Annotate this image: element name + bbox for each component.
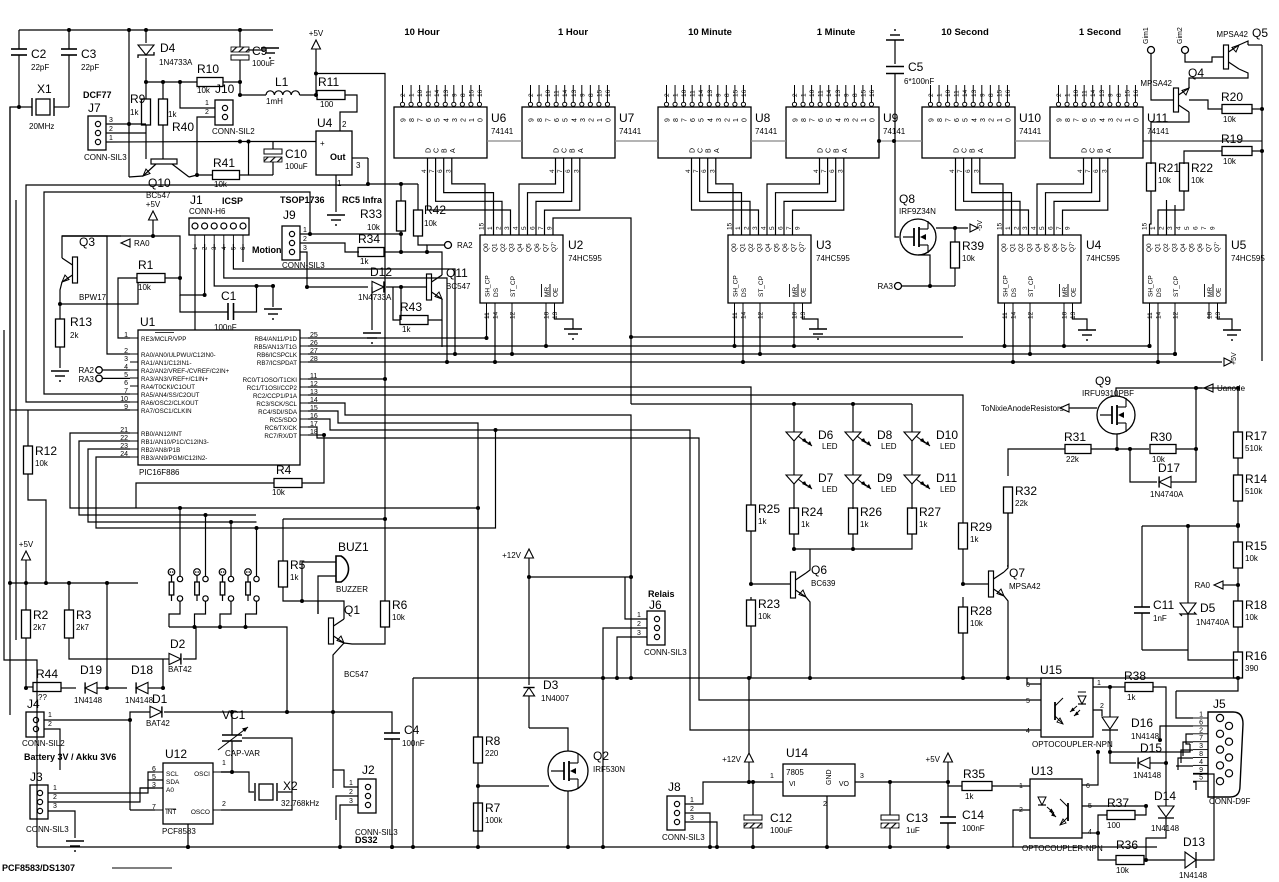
wire Q11 collector — [427, 252, 442, 275]
wires Q3 — [62, 236, 121, 258]
svg-text:14: 14 — [562, 89, 569, 97]
wires U12 left — [148, 772, 155, 780]
wires R31 — [1008, 449, 1065, 476]
svg-text:VC1: VC1 — [222, 708, 246, 722]
svg-text:Q1: Q1 — [1010, 243, 1017, 252]
svg-text:Q0: Q0 — [731, 243, 738, 252]
svg-text:3: 3 — [860, 773, 864, 780]
wire U2 Q7 chain — [553, 218, 631, 404]
svg-text:1: 1 — [690, 797, 694, 804]
svg-text:L1: L1 — [275, 75, 289, 89]
wire L1 to R11 — [300, 94, 316, 96]
svg-text:Q7: Q7 — [1061, 243, 1068, 252]
svg-text:7: 7 — [546, 118, 553, 122]
svg-text:9: 9 — [793, 118, 800, 122]
svg-text:13: 13 — [800, 311, 807, 319]
transistor Q7 — [989, 571, 994, 597]
svg-text:D5: D5 — [1200, 601, 1216, 615]
svg-text:SCL: SCL — [166, 771, 179, 778]
svg-text:8: 8 — [1199, 751, 1203, 758]
diode D1 — [150, 706, 162, 717]
svg-text:3: 3 — [124, 356, 128, 363]
svg-text:CONN-SIL2: CONN-SIL2 — [22, 739, 65, 748]
svg-text:5: 5 — [827, 118, 834, 122]
svg-text:R33: R33 — [360, 207, 382, 221]
svg-text:2: 2 — [1056, 93, 1063, 97]
svg-text:3: 3 — [356, 161, 361, 170]
svg-text:U3: U3 — [816, 238, 832, 252]
svg-text:RB4/AN11/P1D: RB4/AN11/P1D — [254, 336, 297, 343]
svg-text:J6: J6 — [649, 598, 662, 612]
diode D17 — [1159, 476, 1171, 487]
svg-text:U8: U8 — [755, 111, 771, 125]
svg-text:3: 3 — [580, 118, 587, 122]
svg-text:Q6: Q6 — [811, 563, 827, 577]
svg-text:D19: D19 — [80, 663, 102, 677]
svg-text:R44: R44 — [36, 667, 58, 681]
svg-text:B: B — [706, 148, 713, 153]
svg-text:R24: R24 — [801, 505, 823, 519]
svg-text:9: 9 — [1065, 226, 1072, 230]
svg-text:2: 2 — [303, 236, 307, 243]
svg-text:U9: U9 — [883, 111, 899, 125]
svg-text:D18: D18 — [131, 663, 153, 677]
svg-text:9: 9 — [1199, 767, 1203, 774]
svg-text:6*100nF: 6*100nF — [904, 77, 934, 86]
svg-text:4: 4 — [835, 118, 842, 122]
svg-text:A0: A0 — [166, 787, 174, 794]
svg-text:1: 1 — [733, 118, 740, 122]
svg-text:OPTOCOUPLER-NPN: OPTOCOUPLER-NPN — [1032, 740, 1113, 749]
wire TSOP out — [352, 157, 368, 159]
svg-text:D8: D8 — [877, 428, 893, 442]
svg-text:D: D — [818, 148, 825, 153]
svg-text:J4: J4 — [27, 697, 40, 711]
svg-text:1k: 1k — [402, 325, 411, 334]
svg-text:10: 10 — [1073, 89, 1080, 97]
LED rail top — [631, 403, 912, 405]
wire R10 right — [223, 81, 240, 83]
svg-text:1: 1 — [337, 179, 342, 188]
svg-text:10: 10 — [417, 89, 424, 97]
wires R30 — [1176, 448, 1196, 450]
svg-text:1k: 1k — [360, 257, 369, 266]
svg-text:C: C — [698, 148, 705, 153]
svg-text:X2: X2 — [283, 779, 298, 793]
svg-text:2: 2 — [928, 93, 935, 97]
svg-text:4: 4 — [1026, 728, 1030, 735]
svg-text:5: 5 — [435, 118, 442, 122]
svg-text:1N4007: 1N4007 — [541, 694, 570, 703]
svg-text:OE: OE — [801, 287, 808, 297]
svg-text:+5V: +5V — [19, 540, 34, 549]
svg-text:R7: R7 — [485, 801, 501, 815]
wire +5V to R1 and C1 — [153, 236, 205, 295]
switch S1 — [168, 569, 175, 576]
svg-text:R4: R4 — [276, 463, 292, 477]
svg-text:Q10: Q10 — [148, 176, 171, 190]
svg-text:7: 7 — [418, 118, 425, 122]
transistor Q6 — [791, 572, 796, 598]
svg-text:5: 5 — [1184, 226, 1191, 230]
connector J7 — [88, 116, 106, 150]
ground C1 — [272, 286, 274, 307]
svg-text:11: 11 — [1002, 312, 1009, 319]
svg-text:Q8: Q8 — [899, 192, 915, 206]
svg-text:8: 8 — [1065, 118, 1072, 122]
resistor R24 — [790, 508, 799, 534]
resistor R34 — [358, 248, 384, 257]
wire y337 — [631, 336, 963, 338]
power +12V — [745, 753, 754, 762]
resistor R26 — [849, 508, 858, 534]
svg-text:5: 5 — [1199, 775, 1203, 782]
svg-text:1N4148: 1N4148 — [1151, 824, 1180, 833]
resistor R32 — [1004, 487, 1013, 513]
svg-text:C4: C4 — [404, 723, 420, 737]
svg-text:D6: D6 — [818, 428, 834, 442]
svg-text:TSOP1736: TSOP1736 — [280, 195, 325, 205]
svg-text:2: 2 — [400, 93, 407, 97]
svg-text:1: 1 — [801, 93, 808, 97]
svg-text:32.768kHz: 32.768kHz — [281, 799, 319, 808]
crystal X2 — [221, 772, 254, 792]
svg-text:6: 6 — [554, 118, 561, 122]
svg-text:R43: R43 — [400, 300, 422, 314]
svg-text:2: 2 — [1100, 703, 1104, 710]
overline MCLR — [155, 332, 174, 334]
svg-text:100k: 100k — [485, 816, 503, 825]
svg-text:14: 14 — [434, 89, 441, 97]
svg-text:4: 4 — [443, 118, 450, 122]
svg-text:3: 3 — [1108, 118, 1115, 122]
bus wire lower mid — [413, 677, 1238, 679]
diode D18 — [136, 682, 148, 693]
svg-text:6: 6 — [1199, 719, 1203, 726]
resistor R4 — [274, 479, 302, 488]
svg-text:9: 9 — [1107, 93, 1114, 97]
svg-text:U4: U4 — [1086, 238, 1102, 252]
svg-text:11: 11 — [690, 90, 697, 97]
svg-text:LED: LED — [822, 442, 838, 451]
svg-text:+5V: +5V — [146, 200, 161, 209]
transistor Q1 — [329, 618, 334, 644]
svg-text:D3: D3 — [543, 678, 559, 692]
resistor R43 — [400, 316, 428, 325]
svg-text:+5V: +5V — [309, 29, 324, 38]
svg-text:9: 9 — [579, 93, 586, 97]
svg-text:74141: 74141 — [883, 127, 906, 136]
svg-text:C: C — [434, 148, 441, 153]
svg-text:A: A — [842, 148, 849, 153]
svg-text:Q3: Q3 — [757, 243, 764, 252]
svg-text:10k: 10k — [1245, 554, 1259, 563]
resistor R35 — [962, 782, 992, 791]
svg-text:Q1: Q1 — [344, 603, 360, 617]
svg-text:Q5: Q5 — [1189, 243, 1196, 252]
svg-text:D15: D15 — [1140, 741, 1162, 755]
svg-text:1N4148: 1N4148 — [1179, 871, 1208, 880]
svg-text:Q5: Q5 — [1252, 26, 1268, 40]
svg-text:15: 15 — [732, 89, 739, 97]
wire +12V to J6 — [529, 576, 631, 578]
svg-text:1k: 1k — [919, 520, 928, 529]
svg-text:B: B — [1098, 148, 1105, 153]
svg-text:D7: D7 — [818, 471, 834, 485]
wires nixie driver to shift register — [956, 158, 1029, 235]
wire OE to ground — [803, 313, 819, 329]
svg-text:RA5/AN4/SS/C2OUT: RA5/AN4/SS/C2OUT — [141, 392, 200, 399]
svg-text:2: 2 — [664, 93, 671, 97]
svg-text:A: A — [450, 148, 457, 153]
svg-text:VO: VO — [839, 781, 850, 788]
svg-text:5: 5 — [1026, 698, 1030, 705]
wire right edge rail — [1261, 45, 1263, 361]
wire RC5 to U15 pin4 — [308, 419, 1041, 730]
svg-text:13: 13 — [835, 89, 842, 97]
74141 driver U8 — [658, 107, 751, 158]
resistor R33 — [397, 201, 406, 231]
svg-text:A: A — [714, 148, 721, 153]
svg-text:Q7': Q7' — [1069, 242, 1076, 252]
ground J3 — [66, 840, 84, 842]
svg-text:Q4: Q4 — [765, 243, 772, 252]
resistor R20 — [1222, 105, 1252, 114]
svg-text:8: 8 — [409, 118, 416, 122]
svg-text:3: 3 — [980, 118, 987, 122]
svg-text:R28: R28 — [970, 604, 992, 618]
svg-text:R6: R6 — [392, 598, 408, 612]
svg-text:RB7/ICSPDAT: RB7/ICSPDAT — [257, 360, 297, 367]
wire Q3 emitter to R13 — [60, 282, 138, 304]
svg-text:7: 7 — [1199, 735, 1203, 742]
ground — [564, 328, 582, 330]
svg-text:2: 2 — [528, 93, 535, 97]
resistor R12 — [24, 446, 33, 474]
svg-text:R18: R18 — [1245, 598, 1267, 612]
zener D4 — [145, 30, 147, 43]
svg-text:7: 7 — [810, 118, 817, 122]
bus wire RB7 +5V rail — [308, 361, 1222, 363]
svg-text:1k: 1k — [970, 535, 979, 544]
svg-text:9: 9 — [715, 93, 722, 97]
svg-text:8: 8 — [537, 118, 544, 122]
svg-text:1N4148: 1N4148 — [1131, 732, 1160, 741]
wires X2 — [242, 738, 292, 792]
svg-text:4: 4 — [971, 118, 978, 122]
svg-text:RC2/CCP1/P1A: RC2/CCP1/P1A — [253, 393, 298, 400]
svg-text:74HC595: 74HC595 — [1231, 254, 1265, 263]
svg-text:10: 10 — [809, 89, 816, 97]
svg-text:2: 2 — [109, 126, 113, 133]
svg-text:15: 15 — [468, 89, 475, 97]
svg-text:100nF: 100nF — [214, 323, 237, 332]
svg-text:1: 1 — [861, 118, 868, 122]
power +5V — [312, 40, 321, 49]
LED D6 — [786, 432, 802, 441]
svg-text:C5: C5 — [908, 60, 924, 74]
svg-text:10k: 10k — [1191, 176, 1205, 185]
optocoupler U15 — [1041, 678, 1093, 737]
svg-text:R25: R25 — [758, 502, 780, 516]
svg-text:16: 16 — [1005, 89, 1012, 97]
svg-text:10: 10 — [945, 89, 952, 97]
svg-text:3: 3 — [1199, 743, 1203, 750]
resistor R10 — [197, 78, 223, 87]
svg-text:R29: R29 — [970, 520, 992, 534]
svg-text:6: 6 — [818, 118, 825, 122]
ground C9 — [249, 49, 266, 51]
svg-text:9: 9 — [1210, 226, 1217, 230]
svg-text:D4: D4 — [160, 41, 176, 55]
svg-text:R12: R12 — [35, 444, 57, 458]
svg-text:U10: U10 — [1019, 111, 1041, 125]
connector J2 — [358, 779, 376, 813]
svg-text:D: D — [554, 148, 561, 153]
wires D5 — [1187, 526, 1189, 603]
svg-text:10k: 10k — [197, 86, 211, 95]
svg-text:100uF: 100uF — [770, 826, 793, 835]
svg-text:2: 2 — [48, 721, 52, 728]
svg-text:Q6: Q6 — [782, 243, 789, 252]
wire +12V bus feed — [748, 678, 750, 753]
svg-text:U13: U13 — [1031, 764, 1053, 778]
power +5V — [22, 551, 31, 560]
svg-text:13: 13 — [707, 89, 714, 97]
svg-text:ST_CP: ST_CP — [510, 276, 517, 297]
svg-text:RA3: RA3 — [877, 282, 893, 291]
svg-text:C1: C1 — [221, 289, 237, 303]
svg-text:1: 1 — [537, 93, 544, 97]
svg-text:J2: J2 — [362, 763, 375, 777]
diode D13 — [1185, 852, 1196, 868]
svg-text:J1: J1 — [190, 193, 203, 207]
svg-text:LED: LED — [881, 442, 897, 451]
wire TSOP pin1 to ground — [335, 175, 337, 212]
svg-text:11: 11 — [732, 312, 739, 319]
svg-text:510k: 510k — [1245, 444, 1263, 453]
svg-text:1N4733A: 1N4733A — [159, 58, 193, 67]
svg-text:A: A — [1106, 148, 1113, 153]
svg-text:10k: 10k — [962, 254, 976, 263]
svg-text:GND: GND — [826, 769, 833, 785]
power +5V — [149, 211, 158, 220]
svg-text:DS: DS — [741, 287, 748, 297]
svg-text:4: 4 — [1199, 759, 1203, 766]
connector J3 — [30, 785, 48, 819]
svg-text:10: 10 — [681, 89, 688, 97]
wire switch column feeds — [179, 508, 181, 576]
wire RC6 to U15 pin5 — [308, 427, 1041, 700]
svg-text:R23: R23 — [758, 597, 780, 611]
svg-text:DS: DS — [1011, 287, 1018, 297]
svg-text:R3: R3 — [76, 608, 92, 622]
wire +5V column x385 — [316, 74, 385, 602]
svg-text:3: 3 — [1167, 226, 1174, 230]
svg-text:D2: D2 — [170, 637, 186, 651]
resistor R44 — [33, 683, 61, 692]
svg-text:ST_CP: ST_CP — [1173, 276, 1180, 297]
wire R8 to Q2 gate — [478, 785, 530, 787]
resistor R3 — [65, 610, 74, 638]
74141 driver U11 — [1050, 107, 1143, 158]
svg-text:BUZ1: BUZ1 — [338, 540, 369, 554]
svg-text:74141: 74141 — [1019, 127, 1042, 136]
svg-text:1N4148: 1N4148 — [74, 696, 103, 705]
svg-text:22pF: 22pF — [31, 63, 49, 72]
svg-text:74HC595: 74HC595 — [568, 254, 602, 263]
svg-text:Q5: Q5 — [774, 243, 781, 252]
svg-text:Q9: Q9 — [1095, 374, 1111, 388]
svg-text:RB6/ICSPCLK: RB6/ICSPCLK — [257, 352, 298, 359]
svg-text:28: 28 — [310, 356, 318, 363]
svg-text:10k: 10k — [424, 219, 438, 228]
svg-text:12: 12 — [1028, 311, 1035, 319]
svg-text:10k: 10k — [35, 459, 49, 468]
svg-text:0: 0 — [1005, 118, 1012, 122]
svg-text:2: 2 — [852, 118, 859, 122]
74141 driver U9 — [786, 107, 879, 158]
svg-text:C10: C10 — [285, 147, 307, 161]
switch S2 — [194, 569, 201, 576]
svg-text:RA0: RA0 — [134, 239, 150, 248]
transistor Q5 — [1224, 45, 1229, 69]
svg-text:SH_CP: SH_CP — [1148, 275, 1155, 297]
svg-text:3: 3 — [844, 118, 851, 122]
svg-text:2: 2 — [1116, 118, 1123, 122]
svg-text:7: 7 — [1074, 118, 1081, 122]
svg-text:CONN-D9F: CONN-D9F — [1209, 797, 1250, 806]
svg-text:14: 14 — [826, 89, 833, 97]
svg-text:11: 11 — [1082, 90, 1089, 97]
svg-text:10k: 10k — [1116, 866, 1130, 875]
svg-text:74HC595: 74HC595 — [1086, 254, 1120, 263]
svg-text:74141: 74141 — [619, 127, 642, 136]
svg-text:R41: R41 — [213, 156, 235, 170]
signal RA2 tap — [445, 242, 452, 249]
svg-text:RE3/MCLR/VPP: RE3/MCLR/VPP — [141, 336, 186, 343]
svg-text:1mH: 1mH — [266, 97, 283, 106]
svg-text:RC7/RX/DT: RC7/RX/DT — [264, 433, 297, 440]
svg-text:4: 4 — [1099, 118, 1106, 122]
svg-text:J5: J5 — [1213, 697, 1226, 711]
svg-text:2: 2 — [460, 118, 467, 122]
svg-text:R8: R8 — [485, 734, 501, 748]
wire C10 bottom to R41 node — [249, 174, 274, 176]
wire pin2 Q3 — [62, 236, 130, 354]
svg-text:16: 16 — [869, 89, 876, 97]
wire crystal to caps — [19, 106, 32, 108]
resistor R25 — [747, 505, 756, 531]
resistor R11 — [317, 91, 345, 100]
svg-text:J8: J8 — [668, 780, 681, 794]
wire Q3 collector line to +5V node — [62, 235, 153, 237]
svg-text:X1: X1 — [37, 82, 52, 96]
svg-text:Q0: Q0 — [1146, 243, 1153, 252]
svg-text:R37: R37 — [1107, 796, 1129, 810]
svg-text:9: 9 — [665, 118, 672, 122]
resistor R5 — [279, 561, 288, 587]
svg-text:7: 7 — [682, 118, 689, 122]
bottom ground bus — [37, 846, 1157, 848]
svg-text:1: 1 — [349, 780, 353, 787]
svg-text:R34: R34 — [358, 232, 380, 246]
svg-text:Q4: Q4 — [1035, 243, 1042, 252]
svg-text:10: 10 — [544, 311, 551, 319]
svg-text:VI: VI — [789, 781, 796, 788]
svg-text:C2: C2 — [31, 47, 47, 61]
wires buzzer — [302, 562, 336, 601]
